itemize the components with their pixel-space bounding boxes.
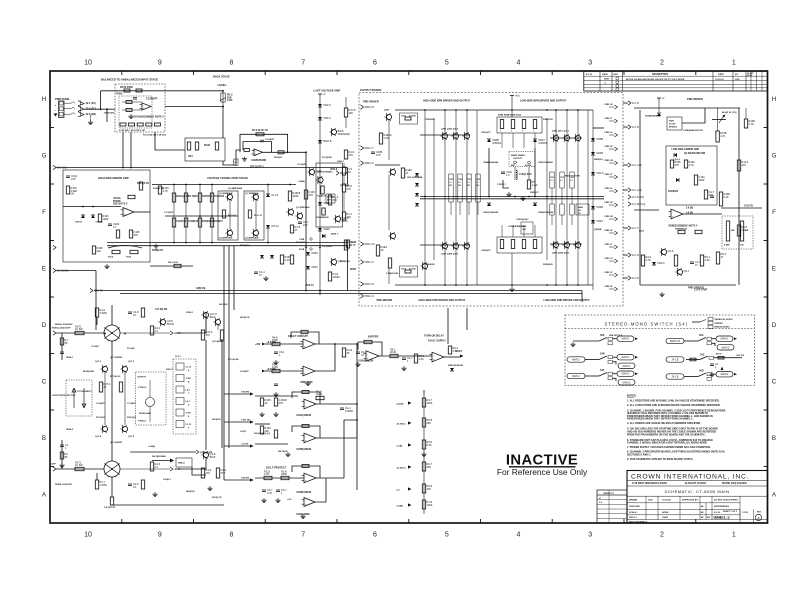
svg-text:5.6 (B): 5.6 (B) [686,207,693,209]
diode CR31 [306,265,318,269]
svg-text:J2-1 (3C): J2-1 (3C) [86,102,96,105]
wire predrv mid [375,164,400,166]
resistor R41 [174,264,181,267]
svg-text:R24B R24B R24D R24A: R24B R24B R24D R24A [498,114,521,117]
wire emitter stub [477,202,479,215]
node J4-1 R [628,253,639,257]
svg-text:Q17-2: Q17-2 [95,361,102,363]
svg-text:47K: 47K [206,333,211,337]
resistor R109 [92,246,103,254]
svg-text:0.1: 0.1 [458,182,460,184]
svg-text:96497: 96497 [604,78,610,81]
resistor R181o [201,468,211,478]
resistor R16v [342,184,352,192]
transistor Q4 [440,242,447,250]
resistor R51f [272,362,280,372]
svg-text:49K: 49K [427,465,432,469]
resistor emitter4 [550,204,554,215]
wire [528,167,530,180]
capacitor C11f [356,350,367,357]
svg-text:MAIN 2: MAIN 2 [722,346,730,349]
svg-text:3: 3 [588,532,592,539]
wire vt column 3 [211,185,213,243]
node rev circle [616,81,619,84]
svg-text:CH1 FB: CH1 FB [744,204,753,207]
node rail junction t [455,109,457,111]
diode CR44 [673,153,681,162]
svg-text:C19B: C19B [299,239,305,241]
wire bus drop [347,168,349,185]
svg-text:DC/LF PROTECT: DC/LF PROTECT [266,466,287,470]
wire column rail [466,110,468,285]
node MAIN 2 [617,371,634,376]
node vt junction2 [185,242,187,244]
transistor Q107 [251,193,258,201]
node stage2 out [287,151,289,153]
wire title row b [627,519,768,521]
svg-text:CR2B: CR2B [596,205,603,209]
wire title col5 [739,509,741,523]
svg-text:C4-7|STOP: C4-7|STOP [104,506,116,509]
resistor R135 [670,160,681,168]
svg-text:PHONE (219) 294-8000: PHONE (219) 294-8000 [722,482,747,485]
svg-text:Q1-4|MPSA06: Q1-4|MPSA06 [228,187,243,190]
svg-text:MAIN 2: MAIN 2 [623,381,631,384]
wire rear gnd link [503,180,509,188]
resistor R163 [280,255,291,264]
svg-text:MAIN 2: MAIN 2 [721,338,729,341]
svg-text:NEXT ASSEMBLY: NEXT ASSEMBLY [629,521,648,524]
transistor Q170 [158,318,173,326]
svg-text:U100C|LM339: U100C|LM339 [296,415,312,417]
capacitor C32f [274,384,278,386]
node vt junction [173,184,175,186]
svg-text:+24(B): +24(B) [298,180,305,183]
wire out5 [316,477,344,479]
node MAIN 2 [567,357,585,362]
node OUTPUT BOARD box [359,93,623,307]
resistor R176o [201,330,213,340]
svg-text:+: + [55,103,57,107]
svg-text:R2E9|6.8: R2E9|6.8 [594,159,604,161]
wire [122,101,142,103]
capacitor C47 [298,220,309,227]
resistor R19o [95,480,107,489]
svg-text:Q4E7|DYNAMIC: Q4E7|DYNAMIC [317,171,333,174]
wire emitter stub [459,202,461,215]
node rail junction b [566,284,568,286]
wire in4 [255,423,270,425]
diode CR30 [306,251,318,255]
svg-text:E.C.N.: E.C.N. [714,512,721,514]
node PMD-1N [609,204,615,206]
svg-text:0.1: 0.1 [550,180,552,182]
resistor R123 [304,190,315,199]
node switch S4B [599,356,607,360]
svg-text:E13B: E13B [299,249,305,251]
svg-text:PMD-1 G: PMD-1 G [365,163,375,165]
svg-text:CR2: CR2 [550,177,554,179]
svg-text:CHANNEL 2 SIGNAL INDICATOR LIG: CHANNEL 2 SIGNAL INDICATOR LIGHT IN PARA… [627,442,708,445]
svg-text:PTC1B1|SEE 5: PTC1B1|SEE 5 [77,391,92,393]
svg-text:Q4-7: Q4-7 [684,269,690,273]
node PMD-1E [609,288,615,290]
svg-text:C4-1|47P: C4-1|47P [240,370,249,373]
wire [265,343,303,345]
resistor R7-8 [422,500,432,509]
wire [263,151,306,153]
wire [152,460,170,462]
svg-text:S4B: S4B [600,353,605,356]
diode CR26 [318,116,331,120]
wire title col [645,496,647,519]
capacitor C100f [274,398,286,406]
capacitor C41f [262,488,273,495]
diode CR10B [657,113,661,116]
node J2-2 [53,165,67,169]
svg-text:PMD-1W: PMD-1W [605,160,613,162]
svg-text:LRD: LRD [648,500,653,502]
svg-text:J4-1 (1/3): J4-1 (1/3) [632,165,642,167]
wire bank stub [501,133,503,148]
resistor R94f [448,346,458,354]
node +24 (B) [408,401,412,404]
svg-text:2: 2 [660,60,664,67]
node rail junction b [466,284,468,286]
node cross3 [546,196,548,198]
wire [165,106,223,108]
svg-text:RED: RED [511,165,516,167]
resistor R177o [220,330,223,340]
diode CR3 [415,193,419,196]
wire [511,99,513,118]
wire [64,102,71,104]
wire out top2 [120,332,170,334]
svg-text:LOW-SIDE PNP DRIVER AND OUTPUT: LOW-SIDE PNP DRIVER AND OUTPUT [544,298,591,302]
node R6EB bias box [576,204,589,215]
node VT sub-box 2 [244,191,264,240]
wire up to bus [100,91,102,109]
svg-text:BUFFER: BUFFER [368,335,378,339]
resistor R18v [321,186,324,194]
svg-text:R4-8: R4-8 [265,432,271,436]
resistor R18f [342,348,352,357]
ground f1 [273,360,278,365]
wire base bus top [420,134,470,136]
svg-text:+0.6(B): +0.6(B) [148,446,155,448]
node PMD-1W [609,162,615,164]
resistor R182 [126,109,132,112]
node REAR PANEL OUTPUT box [509,152,535,167]
capacitor C48 [710,196,714,198]
wire input bus [56,167,348,169]
svg-text:DO NOT SCALE PRINT: DO NOT SCALE PRINT [714,499,738,502]
node BIAS B [336,171,348,175]
svg-text:PMD-1 T: PMD-1 T [365,148,375,150]
resistor R17v [342,212,352,220]
svg-text:T1E5: T1E5 [476,179,480,181]
ground buf [401,366,406,371]
resistor R23o [150,462,160,471]
svg-text:LEVEL: LEVEL [218,83,227,87]
wire [345,117,347,128]
resistor R5 [215,142,218,150]
resistor R9 [172,193,175,202]
svg-text:-: - [305,475,306,478]
node PMD-1T [609,120,615,122]
wire title row [627,502,740,504]
svg-text:STEREO-MONO SWITCH (S4): STEREO-MONO SWITCH (S4) [605,321,689,326]
wire [623,189,628,191]
svg-text:C1-8|47P: C1-8|47P [265,138,275,141]
capacitor C14 [254,270,265,277]
resistor R5o [527,180,538,189]
svg-text:-41.8V(C): -41.8V(C) [396,466,406,469]
op-amp U4 [669,209,684,219]
node fault input 1 [262,343,266,346]
svg-text:R1E7: R1E7 [669,121,675,123]
svg-text:C: C [42,379,47,386]
wire [124,372,126,425]
svg-text:R152|4K99: R152|4K99 [202,220,214,223]
diode CR4B [487,138,502,145]
transistor Q11 [562,241,569,249]
resistor R170 [75,324,84,334]
svg-text:Q1E7 Q1E8 Q1E9: Q1E7 Q1E8 Q1E9 [441,254,459,256]
svg-text:-41.8V(C): -41.8V(C) [396,422,406,425]
transistor Q7 [551,134,558,142]
transistor Q179 [213,318,220,326]
resistor R151 [222,210,225,218]
svg-text:47P: 47P [376,153,381,157]
node MAIN 2 [717,345,734,350]
svg-text:VOLTAGE TRANSLATOR STAGE: VOLTAGE TRANSLATOR STAGE [207,176,248,180]
wire [192,467,206,475]
svg-text:R17-9|1K: R17-9|1K [96,417,105,419]
wire [149,407,151,423]
transistor Q15 [100,425,107,433]
svg-text:1K: 1K [381,248,384,252]
svg-text:0.1: 0.1 [155,465,159,469]
ground [242,157,247,162]
svg-text:+3 (B): +3 (B) [396,445,402,447]
node rail junction t [577,109,579,111]
svg-text:R5E: R5E [523,226,528,228]
svg-text:100K: 100K [427,503,433,507]
node MAIN 2 [618,363,635,368]
svg-text:R100M|600M: R100M|600M [316,217,329,219]
svg-text:DA-1B|100MA: DA-1B|100MA [152,455,166,458]
wire [130,451,196,453]
wire [64,113,71,115]
wire rail 434 [433,118,435,260]
svg-text:4.7K: 4.7K [720,134,726,138]
node subsonic filter box [185,138,225,161]
wire base bus top r [550,137,582,139]
resistor R1o [60,338,68,345]
svg-text:CR31: CR31 [311,265,318,269]
transistor Q1 [440,132,447,140]
svg-text:HIGH-SIDE ERROR AMP: HIGH-SIDE ERROR AMP [98,176,129,180]
wire [686,359,700,361]
node switch arrow up [721,367,724,371]
svg-text:STEREO: STEREO [715,323,724,325]
svg-text:R6EB: R6EB [578,207,584,209]
power +Vcc output board [510,96,521,99]
svg-text:Q17-2|SPKR: Q17-2|SPKR [110,357,123,359]
svg-text:T-300: T-300 [186,378,192,380]
transistor Q12 [573,241,580,249]
svg-text:CR-14: CR-14 [271,224,279,228]
wire [388,268,390,284]
svg-text:1K: 1K [349,243,352,247]
svg-text:GRN FB: GRN FB [196,287,206,290]
resistor emitter [476,174,480,202]
svg-text:PMD-1H: PMD-1H [605,258,613,260]
node MAIN 2 [567,373,585,378]
svg-text:5W: 5W [476,185,479,187]
resistor R5-9 [422,440,432,449]
svg-text:-: - [367,353,368,356]
wire column rail [555,110,557,285]
resistor R6 [244,149,250,152]
node MR5-8 box [176,458,192,467]
node va junction3 [305,290,307,292]
node J4-1 B (1/3) [628,195,644,199]
svg-text:Q2E5 Q2E4 Q2E3: Q2E5 Q2E4 Q2E3 [552,252,570,255]
wire fb loop [291,332,319,344]
transistor Q105 [225,193,232,201]
node test point C19B [310,238,312,240]
resistor R100M [322,208,325,215]
node input jack [78,106,84,111]
ground f5 [273,412,278,417]
svg-text:0.1: 0.1 [133,485,137,489]
svg-text:4.7K: 4.7K [646,258,652,262]
node L4-5 [176,386,184,393]
resistor R5-6 [256,133,264,136]
wire filter to opamp [223,150,241,165]
svg-text:CR2: CR2 [560,177,564,179]
svg-text:-: - [304,341,305,344]
transistor Q111 [286,208,293,216]
resistor emitter4 [570,204,574,215]
svg-text:BIAS: BIAS [210,315,216,319]
resistor R12B [744,119,755,128]
svg-text:4.7K: 4.7K [749,122,755,126]
svg-text:MAIN 2: MAIN 2 [622,338,630,341]
wire column rail [444,110,446,285]
node C1-12 [176,421,184,428]
wire protect to bus [344,420,357,478]
svg-text:R1E6|220: R1E6|220 [425,264,436,266]
node -0.6(B) [408,503,412,506]
svg-text:R114: R114 [108,256,114,259]
node rail junction b [444,284,446,286]
transistor Q6 [462,242,469,250]
resistor R23 [522,240,525,249]
svg-text:DATE: DATE [602,73,608,76]
svg-text:PMD-1G: PMD-1G [605,132,613,134]
svg-text:CR4C|1N4004A: CR4C|1N4004A [483,211,499,214]
wire vt mid link [165,215,238,217]
node revision table [584,71,768,91]
transistor Q2 [451,132,458,140]
wire in3 [255,395,298,397]
node PMD-1 G [361,161,375,165]
node PMD-1R [609,148,615,150]
resistor R14 [198,218,201,227]
svg-text:47K: 47K [742,163,747,167]
node vt r junction [289,184,291,186]
svg-text:MR5-8|1N4148: MR5-8|1N4148 [448,364,464,367]
wire [682,108,705,123]
svg-text:SPKR: SPKR [167,322,174,326]
op-amp U11 [302,473,317,483]
svg-text:BIAS B: BIAS B [323,139,332,143]
op-amp U7 [302,399,317,409]
svg-text:Q1E1 Q1E2 Q1E3: Q1E1 Q1E2 Q1E3 [441,129,459,131]
svg-text:L101|1.5UH: L101|1.5UH [519,174,532,176]
capacitor C47p [704,190,714,199]
svg-text:-: - [433,354,434,357]
svg-text:2.2K: 2.2K [705,258,711,262]
ground predrv [659,292,664,297]
svg-text:LRD: LRD [735,79,740,81]
wire right rail2 [228,246,230,448]
wire title col [657,496,659,519]
svg-text:PT500-1: PT500-1 [138,421,147,423]
svg-text:47P: 47P [675,163,680,167]
node PMD-1 R [361,282,375,286]
svg-text:R18-0|1K: R18-0|1K [127,417,136,419]
resistor R81f [414,354,424,363]
node jbus [100,108,102,110]
svg-text:-100P: -100P [50,464,56,466]
node vt junction2 [199,242,201,244]
svg-text:R150|220: R150|220 [240,245,250,247]
svg-text:SEE NOTE 5: SEE NOTE 5 [113,203,128,206]
svg-text:BLUE|GRN: BLUE|GRN [83,371,94,373]
node MAIN 2 [617,355,634,360]
svg-text:CHECKED: CHECKED [629,506,640,508]
wire vt column 2 [199,185,201,243]
svg-text:4.99K: 4.99K [724,244,730,247]
node output diode column [592,110,594,290]
svg-text:+V: +V [662,98,665,100]
resistor R24o [110,497,113,505]
svg-text:EN AP: EN AP [747,74,753,77]
wire [511,253,513,287]
resistor R126 [344,240,356,250]
svg-text:5: 5 [445,60,449,67]
svg-text:Q17-6|SPKR: Q17-6|SPKR [110,442,123,444]
diode CR14 [266,224,279,228]
svg-text:CR2-6: CR2-6 [323,116,331,120]
svg-text:-: - [305,500,306,503]
node RED terminal [514,161,517,164]
node J2 pin [59,112,63,116]
svg-text:J4-1 B: J4-1 B [632,127,639,129]
wire [712,119,726,121]
wire diode rail r [534,148,536,196]
wire [388,120,390,160]
transistor Q115 [329,128,349,136]
svg-text:+10 AF: +10 AF [241,443,249,446]
resistor R50p [674,255,677,266]
diode CR4B [591,151,603,155]
resistor R113b [139,182,142,190]
